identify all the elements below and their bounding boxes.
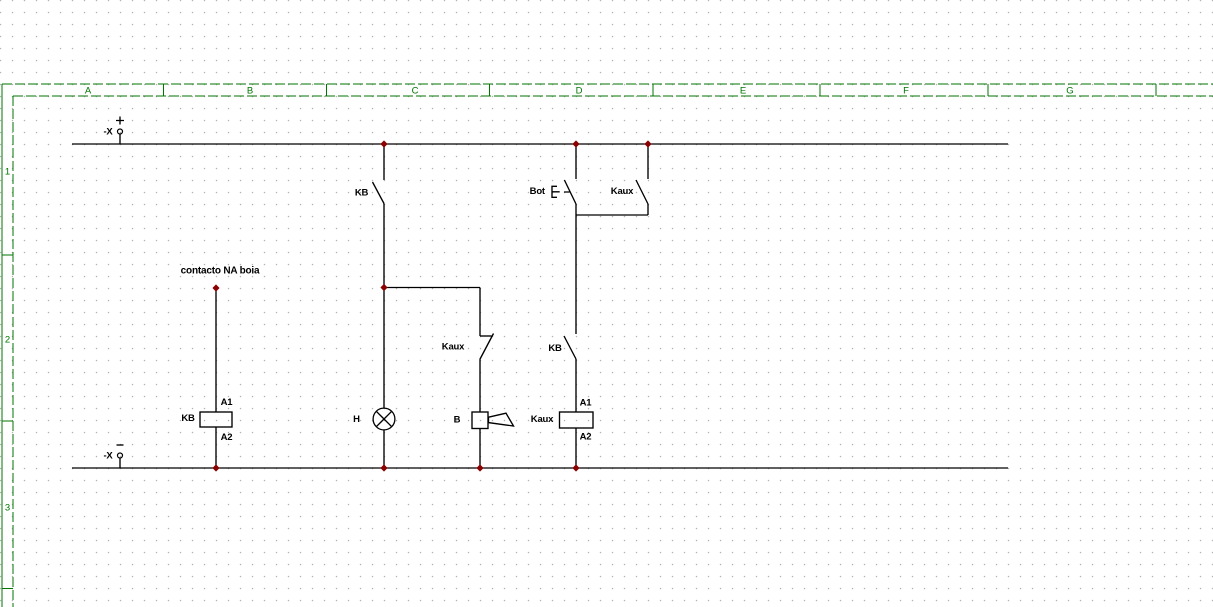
column tick A/B [163, 84, 165, 96]
junction bottom rail / buzzer B [476, 464, 483, 471]
row tick 1/2 [2, 254, 13, 256]
row tick 3/4 [2, 588, 13, 590]
terminal -X plus: circle [118, 129, 123, 134]
buzzer B square [472, 412, 488, 429]
black labels [103, 127, 634, 462]
contact Kaux NO blade [636, 180, 648, 204]
column tick F/G [987, 84, 989, 96]
svg-text:2: 2 [5, 335, 10, 346]
wire branch to Kaux NC [384, 287, 480, 289]
pushbutton Bot blade [564, 180, 576, 204]
svg-text:A1: A1 [221, 397, 234, 408]
wire top supply rail [72, 143, 1008, 145]
svg-text:-X: -X [103, 451, 113, 462]
svg-text:-X: -X [103, 127, 113, 138]
terminal -X minus: stub wire [119, 458, 121, 468]
svg-text:1: 1 [5, 167, 10, 178]
contact Kaux NC crossbar [480, 335, 492, 337]
junction bottom rail / coil Kaux [572, 464, 579, 471]
svg-text:G: G [1066, 86, 1073, 97]
wire pushbutton Bot to contact KB2 [575, 204, 577, 334]
coil KB rectangle [200, 412, 232, 427]
svg-text:D: D [576, 86, 583, 97]
column tick C/D [489, 84, 491, 96]
svg-text:A: A [85, 86, 92, 97]
lamp H cross [376, 411, 391, 426]
column tick G/H [1155, 84, 1157, 96]
junction top rail / KB contact [380, 140, 387, 147]
wire buzzer B to bottom rail [479, 429, 481, 469]
wire top rail down to contact KB [383, 144, 385, 180]
contact Kaux NC blade [480, 334, 494, 360]
frame outer top line [2, 83, 1213, 85]
svg-text:E: E [740, 86, 746, 97]
terminal -X minus: minus bar [117, 444, 124, 446]
wire lamp H to bottom rail [383, 430, 385, 468]
wire coil Kaux to bottom rail [575, 428, 577, 468]
coil Kaux rectangle [560, 412, 594, 428]
junction KB contact / branch [380, 284, 387, 291]
junction top rail / Kaux NO [644, 140, 651, 147]
row tick 2/3 [2, 420, 13, 422]
svg-text:H: H [353, 414, 360, 425]
wire contact KB to lamp H [383, 204, 385, 409]
pushbutton Bot operator bracket [552, 186, 570, 197]
frame outer left line [1, 84, 3, 607]
svg-text:A2: A2 [580, 432, 592, 443]
schematic wires and symbols [72, 117, 1008, 469]
terminal -X minus: circle [118, 453, 123, 458]
contact KB2 NO blade [564, 336, 576, 359]
node contacto NA boia [212, 284, 219, 291]
wire coil KB to bottom rail [215, 427, 217, 468]
svg-text:KB: KB [181, 413, 195, 424]
svg-text:A2: A2 [221, 432, 233, 443]
wire boia dot down to coil KB [215, 288, 217, 412]
wire contact KB2 to coil Kaux [575, 359, 577, 412]
svg-text:Kaux: Kaux [611, 186, 634, 197]
junction bottom rail / coil KB [212, 464, 219, 471]
wire contact Kaux NO down to tee [647, 204, 649, 215]
column tick E/F [819, 84, 821, 96]
svg-text:B: B [454, 414, 461, 425]
svg-text:Kaux: Kaux [531, 414, 554, 425]
svg-text:C: C [412, 86, 419, 97]
svg-text:KB: KB [355, 187, 369, 198]
wire top rail down to pushbutton Bot [575, 144, 577, 179]
svg-text:contacto NA boia: contacto NA boia [181, 265, 260, 276]
wire branch down to contact Kaux NC [479, 288, 481, 337]
column tick D/E [652, 84, 654, 96]
frame inner left line [12, 96, 14, 607]
contact KB NO blade [373, 182, 385, 204]
svg-text:A1: A1 [580, 397, 593, 408]
junction bottom rail / lamp H [380, 464, 387, 471]
terminal -X plus: plus sign [116, 117, 124, 125]
svg-text:3: 3 [5, 503, 10, 514]
wire contact Kaux NC to buzzer B [479, 360, 481, 413]
wire bottom supply rail [72, 467, 1008, 469]
svg-text:B: B [247, 86, 253, 97]
terminal -X plus: stub wire [119, 134, 121, 144]
frame inner top line [13, 95, 1213, 97]
column tick B/C [326, 84, 328, 96]
junction dots (dark red diamonds) [212, 140, 651, 471]
lamp H circle [373, 408, 395, 430]
wire Kaux branch tee [576, 214, 648, 216]
svg-text:Bot: Bot [530, 186, 546, 197]
junction top rail / Bot [572, 140, 579, 147]
wire top rail down to contact Kaux NO [647, 144, 649, 179]
svg-text:Kaux: Kaux [442, 341, 465, 352]
svg-text:KB: KB [548, 343, 562, 354]
buzzer B horn [489, 413, 514, 426]
svg-text:F: F [903, 86, 909, 97]
